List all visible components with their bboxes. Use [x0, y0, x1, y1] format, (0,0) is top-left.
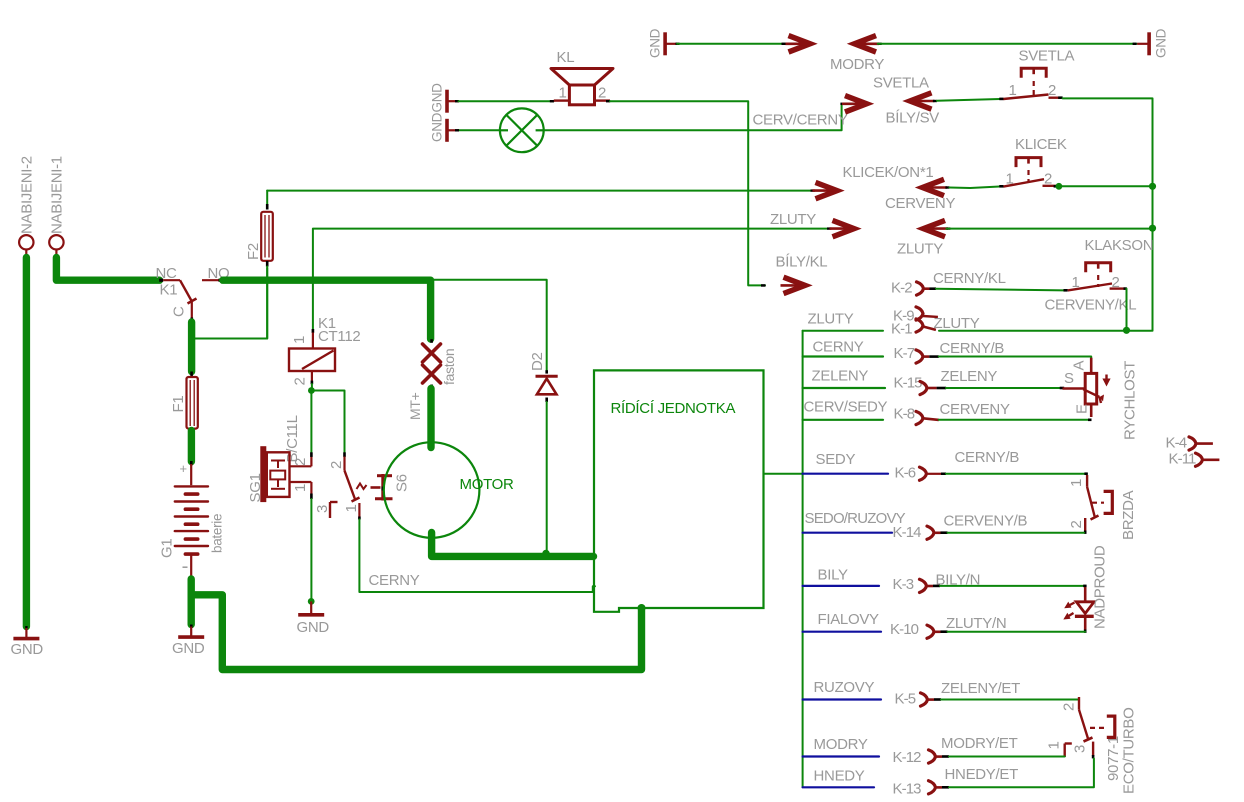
svg-text:1: 1: [292, 484, 309, 492]
wire K-3 to LED NADPROUD: [940, 585, 1085, 587]
svg-text:ZLUTY/N: ZLUTY/N: [946, 615, 1006, 632]
connector female ZLUTY: [924, 220, 946, 236]
junction right bus / ZLUTY: [1149, 225, 1156, 232]
wire K-10 to LED NADPROUD cathode: [948, 631, 1086, 633]
svg-text:NABIJENI-1: NABIJENI-1: [49, 156, 66, 234]
svg-text:CERVENY: CERVENY: [940, 401, 1010, 418]
relay K1 CT112: [312, 329, 315, 333]
fuse F1: [190, 372, 193, 378]
svg-text:ZLUTY: ZLUTY: [897, 241, 943, 258]
wire K-7 to RYCHLOST pin A: [939, 357, 1091, 359]
svg-text:NADPROUD: NADPROUD: [1092, 545, 1109, 629]
wire speaker pin2 to BILY/KL arrow: [610, 101, 765, 285]
wire KLAKSON pin2 down to ZLUTY wire: [1124, 287, 1127, 290]
wire K-2 to switch KLAKSON: [936, 289, 1064, 291]
wire KLICEK pin2 to right bus: [1059, 185, 1152, 187]
connector faston MT+: [430, 339, 433, 343]
svg-text:NC: NC: [156, 265, 178, 282]
svg-text:GND: GND: [297, 619, 330, 636]
switch KLAKSON: [1064, 289, 1068, 292]
svg-text:3: 3: [1072, 745, 1089, 753]
LED NADPROUD: [1084, 587, 1087, 601]
svg-text:K-12: K-12: [893, 749, 922, 766]
connector male BILY/KL: [761, 284, 766, 287]
svg-text:K-3: K-3: [893, 576, 914, 593]
svg-text:CERV/SEDY: CERV/SEDY: [804, 399, 888, 416]
wire F2-bottom to C-wire: [192, 268, 268, 339]
relay K1 coil wire from pin1 up: [313, 229, 827, 329]
svg-text:KLICEK/ON*1: KLICEK/ON*1: [843, 164, 934, 181]
junction control unit / ground bus: [638, 604, 646, 612]
wire lamp to SVETLA arrow: [544, 104, 842, 131]
svg-text:FIALOVY: FIALOVY: [818, 611, 880, 628]
svg-text:G1: G1: [159, 539, 176, 558]
svg-text:K-8: K-8: [894, 406, 915, 423]
control unit box RIDICI JEDNOTKA: [594, 370, 764, 611]
svg-text:baterie: baterie: [210, 514, 225, 553]
junction KLICEK pin2: [1056, 183, 1063, 190]
svg-text:BÍLY/SV: BÍLY/SV: [886, 110, 940, 127]
wire FIALOVY row from bus: [803, 631, 881, 633]
svg-text:CERVENY: CERVENY: [885, 195, 955, 212]
wire junction to SG1 pin2: [310, 391, 312, 453]
svg-text:F2: F2: [245, 243, 262, 260]
svg-text:K-15: K-15: [894, 375, 923, 392]
bus vertical left (x=802.6): [802, 331, 804, 788]
wire NABIJENI-2 to GND: [25, 255, 28, 259]
svg-text:K-11: K-11: [1169, 451, 1197, 468]
svg-text:2: 2: [292, 458, 309, 466]
svg-text:2: 2: [1061, 703, 1078, 711]
svg-text:SG1: SG1: [247, 473, 264, 502]
wire NABIJENI-1 to K1 NC: [55, 255, 58, 259]
wire SG1 pin1 to GND: [310, 499, 312, 601]
wire K-6 to switch BRZDA pin1: [946, 473, 1087, 475]
svg-text:CERNY/B: CERNY/B: [955, 449, 1020, 466]
wire K-8 to RYCHLOST pin E: [939, 419, 1088, 421]
svg-text:HNEDY/ET: HNEDY/ET: [945, 766, 1019, 783]
wire GND to speaker pin1: [455, 100, 459, 102]
svg-text:MODRY: MODRY: [814, 736, 868, 753]
svg-text:MODRY/ET: MODRY/ET: [941, 735, 1018, 752]
wire bus to K-9/K-1 (ZLUTY): [803, 330, 883, 332]
svg-text:CT112: CT112: [318, 328, 360, 345]
svg-text:1: 1: [559, 85, 567, 102]
svg-text:B/C11L: B/C11L: [284, 415, 301, 462]
svg-text:CERNY/KL: CERNY/KL: [933, 270, 1006, 287]
svg-text:CERNY: CERNY: [369, 572, 420, 589]
switch ECO/TURBO 9077-1: [1078, 697, 1080, 710]
junction relay/SG1/S6 node: [308, 387, 315, 394]
svg-text:K-13: K-13: [893, 781, 922, 798]
wire KLICEK/ON*1 male arrow: [811, 189, 815, 191]
svg-text:RUZOVY: RUZOVY: [814, 679, 875, 696]
switch BRZDA: [1086, 475, 1088, 487]
wire control unit to connector bus (SEDY row): [764, 473, 803, 475]
connector male (lamp/SVETLA row): [840, 103, 844, 105]
svg-text:K-5: K-5: [895, 691, 916, 708]
junction right bus / KLICEK: [1149, 183, 1156, 190]
svg-text:GND: GND: [430, 112, 445, 142]
wire K-13 to switch ECO/TURBO pin3: [949, 759, 1094, 788]
svg-text:C: C: [171, 306, 188, 317]
svg-text:2: 2: [1048, 82, 1056, 99]
switch K1 contacts NC/NO: [163, 279, 180, 281]
connector female (BILY/SV): [910, 93, 932, 109]
ground GND battery: [190, 625, 193, 629]
wire ground branch to bottom bus: [191, 595, 641, 670]
svg-text:HNEDY: HNEDY: [814, 768, 865, 785]
svg-text:GND: GND: [1154, 28, 1169, 58]
svg-text:D2: D2: [529, 352, 546, 371]
wire female ZLUTY to right bus: [946, 227, 950, 229]
switch S6: [343, 452, 346, 457]
svg-text:A: A: [1071, 361, 1088, 371]
speaker KL: [550, 100, 554, 102]
svg-text:BRZDA: BRZDA: [1120, 490, 1137, 540]
connector female SVETLA (row MODRY): [855, 36, 877, 52]
switch KLICEK: [999, 185, 1003, 188]
svg-text:CERVENY/B: CERVENY/B: [944, 513, 1028, 530]
svg-text:MT+: MT+: [407, 392, 423, 420]
wire SEDY row from bus: [803, 473, 888, 475]
connector female KLICEK/ON*1: [923, 179, 945, 195]
svg-text:K1: K1: [160, 282, 178, 299]
svg-text:S6: S6: [394, 474, 411, 492]
svg-text:ZELENY/ET: ZELENY/ET: [941, 680, 1020, 697]
wire CERNY row from bus: [803, 355, 883, 357]
svg-text:SVETLA: SVETLA: [1019, 48, 1075, 65]
wire K-5 to switch ECO/TURBO pin2: [941, 699, 1078, 701]
svg-text:K-6: K-6: [895, 465, 916, 482]
svg-text:1: 1: [1046, 741, 1063, 749]
wire F1 to G1: [188, 431, 195, 462]
svg-text:ZLUTY: ZLUTY: [770, 211, 816, 228]
motor M: [384, 442, 480, 538]
svg-text:K-10: K-10: [890, 621, 919, 638]
svg-text:ZLUTY: ZLUTY: [934, 315, 980, 332]
svg-text:SEDY: SEDY: [816, 451, 856, 468]
wire ZELENY row from bus: [803, 387, 885, 389]
ground GND right: [1147, 32, 1151, 55]
svg-text:CERVENY/KL: CERVENY/KL: [1045, 297, 1137, 314]
svg-text:BÍLY/KL: BÍLY/KL: [776, 254, 828, 271]
diode D2 wire from NO bus: [434, 280, 547, 371]
svg-text:S: S: [1064, 370, 1074, 387]
wire K-12 to switch ECO/TURBO pin1: [949, 756, 1065, 758]
wire junction to S6 pin2: [311, 391, 344, 453]
svg-text:3: 3: [314, 505, 331, 513]
wire switch SVETLA to right bus: [1063, 98, 1153, 330]
wire CERNY S6 pin1 to control unit: [359, 520, 595, 593]
svg-text:CERNY/B: CERNY/B: [940, 340, 1005, 357]
svg-text:1: 1: [1068, 479, 1085, 487]
potentiometer RYCHLOST: [1090, 358, 1093, 374]
buzzer SG1: [260, 446, 266, 502]
svg-text:faston: faston: [441, 349, 457, 385]
svg-text:2: 2: [292, 377, 309, 385]
wire CERV/SEDY row from bus: [803, 419, 883, 421]
svg-text:ZELENY: ZELENY: [941, 368, 998, 385]
fuse F2: [266, 191, 268, 204]
svg-text:2: 2: [1112, 274, 1120, 291]
svg-text:K-4: K-4: [1166, 435, 1187, 452]
svg-text:1: 1: [1009, 82, 1017, 99]
svg-text:2: 2: [328, 461, 345, 469]
ground GND lamp: [445, 119, 449, 142]
svg-text:K-1: K-1: [891, 321, 912, 338]
pin NABIJENI-1: [49, 235, 63, 249]
battery G1: [190, 461, 193, 466]
svg-text:GND: GND: [11, 641, 44, 658]
svg-text:NABIJENI-2: NABIJENI-2: [19, 156, 36, 234]
svg-text:1: 1: [343, 504, 360, 512]
svg-text:RYCHLOST: RYCHLOST: [1122, 361, 1139, 440]
wire female arrow to GND right: [878, 43, 882, 45]
wire motor to control unit (thick): [432, 533, 594, 557]
wire MODRY row from bus: [803, 755, 879, 757]
row MODRY: ground GND left: [663, 32, 667, 55]
svg-text:BILY: BILY: [818, 567, 849, 584]
connector male ZLUTY: [827, 227, 831, 229]
wire female to switch KLICEK: [945, 186, 949, 188]
svg-text:2: 2: [1068, 520, 1085, 528]
wire HNEDY row from bus: [803, 786, 874, 788]
svg-text:CERNY: CERNY: [813, 339, 864, 356]
svg-text:SEDO/RUZOVY: SEDO/RUZOVY: [805, 510, 906, 527]
svg-text:RÍDÍCÍ JEDNOTKA: RÍDÍCÍ JEDNOTKA: [611, 400, 736, 417]
svg-text:GND: GND: [430, 83, 445, 113]
svg-text:K-14: K-14: [893, 524, 922, 541]
svg-text:SVETLA: SVETLA: [873, 75, 929, 92]
wire G1 minus to GND: [187, 579, 194, 625]
svg-text:MODRY: MODRY: [830, 56, 884, 73]
wire GND to MODRY arrow: [676, 43, 680, 45]
svg-text:2: 2: [598, 85, 606, 102]
connector male MODRY: [789, 36, 811, 52]
svg-text:KLAKSON: KLAKSON: [1085, 237, 1154, 254]
svg-text:MOTOR: MOTOR: [460, 476, 515, 493]
svg-text:GND: GND: [172, 640, 205, 657]
wire K-15 to RYCHLOST wiper: [946, 387, 1060, 389]
wire K-14 to switch BRZDA pin2: [948, 532, 1085, 534]
svg-text:1: 1: [1006, 171, 1014, 188]
svg-text:9077-1: 9077-1: [1105, 736, 1122, 781]
wire BILY row from bus: [803, 585, 879, 587]
wire female to switch SVETLA: [933, 100, 937, 102]
svg-text:2: 2: [1044, 171, 1052, 188]
wire relay pin2 to junction: [311, 384, 313, 391]
svg-text:ZLUTY: ZLUTY: [808, 311, 854, 328]
lamp: [459, 129, 501, 131]
svg-text:1: 1: [1072, 274, 1080, 291]
svg-text:E: E: [1074, 404, 1091, 414]
junction KLAKSON/ZLUTY: [1123, 327, 1130, 334]
svg-text:+: +: [180, 461, 187, 476]
svg-text:K-7: K-7: [894, 345, 915, 362]
svg-text:CERV/CERNY: CERV/CERNY: [753, 112, 848, 129]
svg-text:F1: F1: [170, 396, 187, 413]
junction D2/motor wire: [542, 550, 550, 558]
svg-text:KLICEK: KLICEK: [1015, 136, 1067, 153]
svg-text:GND: GND: [648, 28, 663, 58]
svg-text:K-2: K-2: [891, 280, 912, 297]
ground GND speaker: [445, 90, 449, 113]
wire D2 to motor wire: [546, 402, 548, 554]
pin NABIJENI-2: [19, 235, 33, 249]
ground GND SG1: [310, 601, 312, 614]
wire K1 C to F1: [188, 322, 195, 372]
wire NO bus to faston: [223, 280, 431, 339]
svg-text:ECO/TURBO: ECO/TURBO: [1121, 708, 1138, 794]
ground GND bottom-left: [25, 626, 27, 630]
wire F2 top to KLICEK/ON*1 row: [267, 190, 810, 192]
svg-text:1: 1: [291, 336, 308, 344]
wire K-1 to right bus (ZLUTY): [939, 330, 1152, 332]
svg-text:KL: KL: [557, 49, 575, 66]
svg-text:ZELENY: ZELENY: [812, 368, 869, 385]
wire faston to motor: [427, 389, 434, 448]
junction at SG1 ground: [308, 598, 315, 605]
wire RUZOVY row from bus: [803, 698, 881, 700]
diode D2: [545, 370, 548, 373]
switch SVETLA: [999, 98, 1003, 101]
wire SEDO/RUZOVY row from bus: [803, 532, 892, 534]
